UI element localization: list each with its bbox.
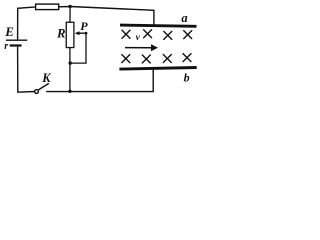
svg-text:E: E (4, 24, 14, 39)
node junction dot top (68, 5, 71, 8)
wire bottom right of switch up to plate b (46, 68, 153, 91)
field cross row2 col4 (183, 54, 191, 62)
resistor R0 (unlabeled box in top wire) (36, 4, 59, 10)
velocity arrow (125, 47, 152, 49)
battery E long plate (6, 39, 27, 41)
svg-text:P: P (80, 19, 88, 33)
wiper arrowhead (75, 31, 80, 35)
switch K pivot circle (35, 90, 39, 94)
svg-text:v: v (136, 33, 141, 43)
plate a (top) (120, 25, 197, 26)
node junction dot on R branch (69, 61, 72, 64)
field cross row1 col2 (144, 30, 152, 38)
field cross row1 col4 (184, 31, 192, 39)
wire wiper loop (70, 33, 86, 63)
wire top left from battery up to resistor (18, 7, 36, 40)
plate b (bottom) (119, 68, 196, 70)
field cross row1 col1 (122, 30, 130, 38)
wire battery down to bottom-left corner and to switch (18, 47, 35, 93)
field cross row2 col3 (163, 55, 171, 63)
field cross row2 col2 (142, 55, 150, 63)
node dot at wiper corner (85, 32, 88, 35)
node junction dot bottom (68, 90, 71, 93)
battery E short thick plate (10, 44, 22, 46)
field cross row2 col1 (122, 55, 130, 63)
wire junction down to potentiometer R (69, 7, 71, 23)
svg-text:b: b (184, 70, 190, 84)
velocity arrowhead (151, 44, 158, 51)
wire top right segment and drop to plate a (59, 7, 154, 26)
svg-text:r: r (4, 41, 8, 52)
potentiometer R body (66, 22, 74, 47)
svg-text:a: a (181, 11, 187, 25)
field cross row1 col3 (164, 31, 172, 39)
wire R bottom down to bottom wire (69, 48, 71, 92)
svg-text:R: R (56, 27, 66, 41)
svg-text:K: K (41, 71, 52, 85)
switch K lever (38, 83, 48, 90)
